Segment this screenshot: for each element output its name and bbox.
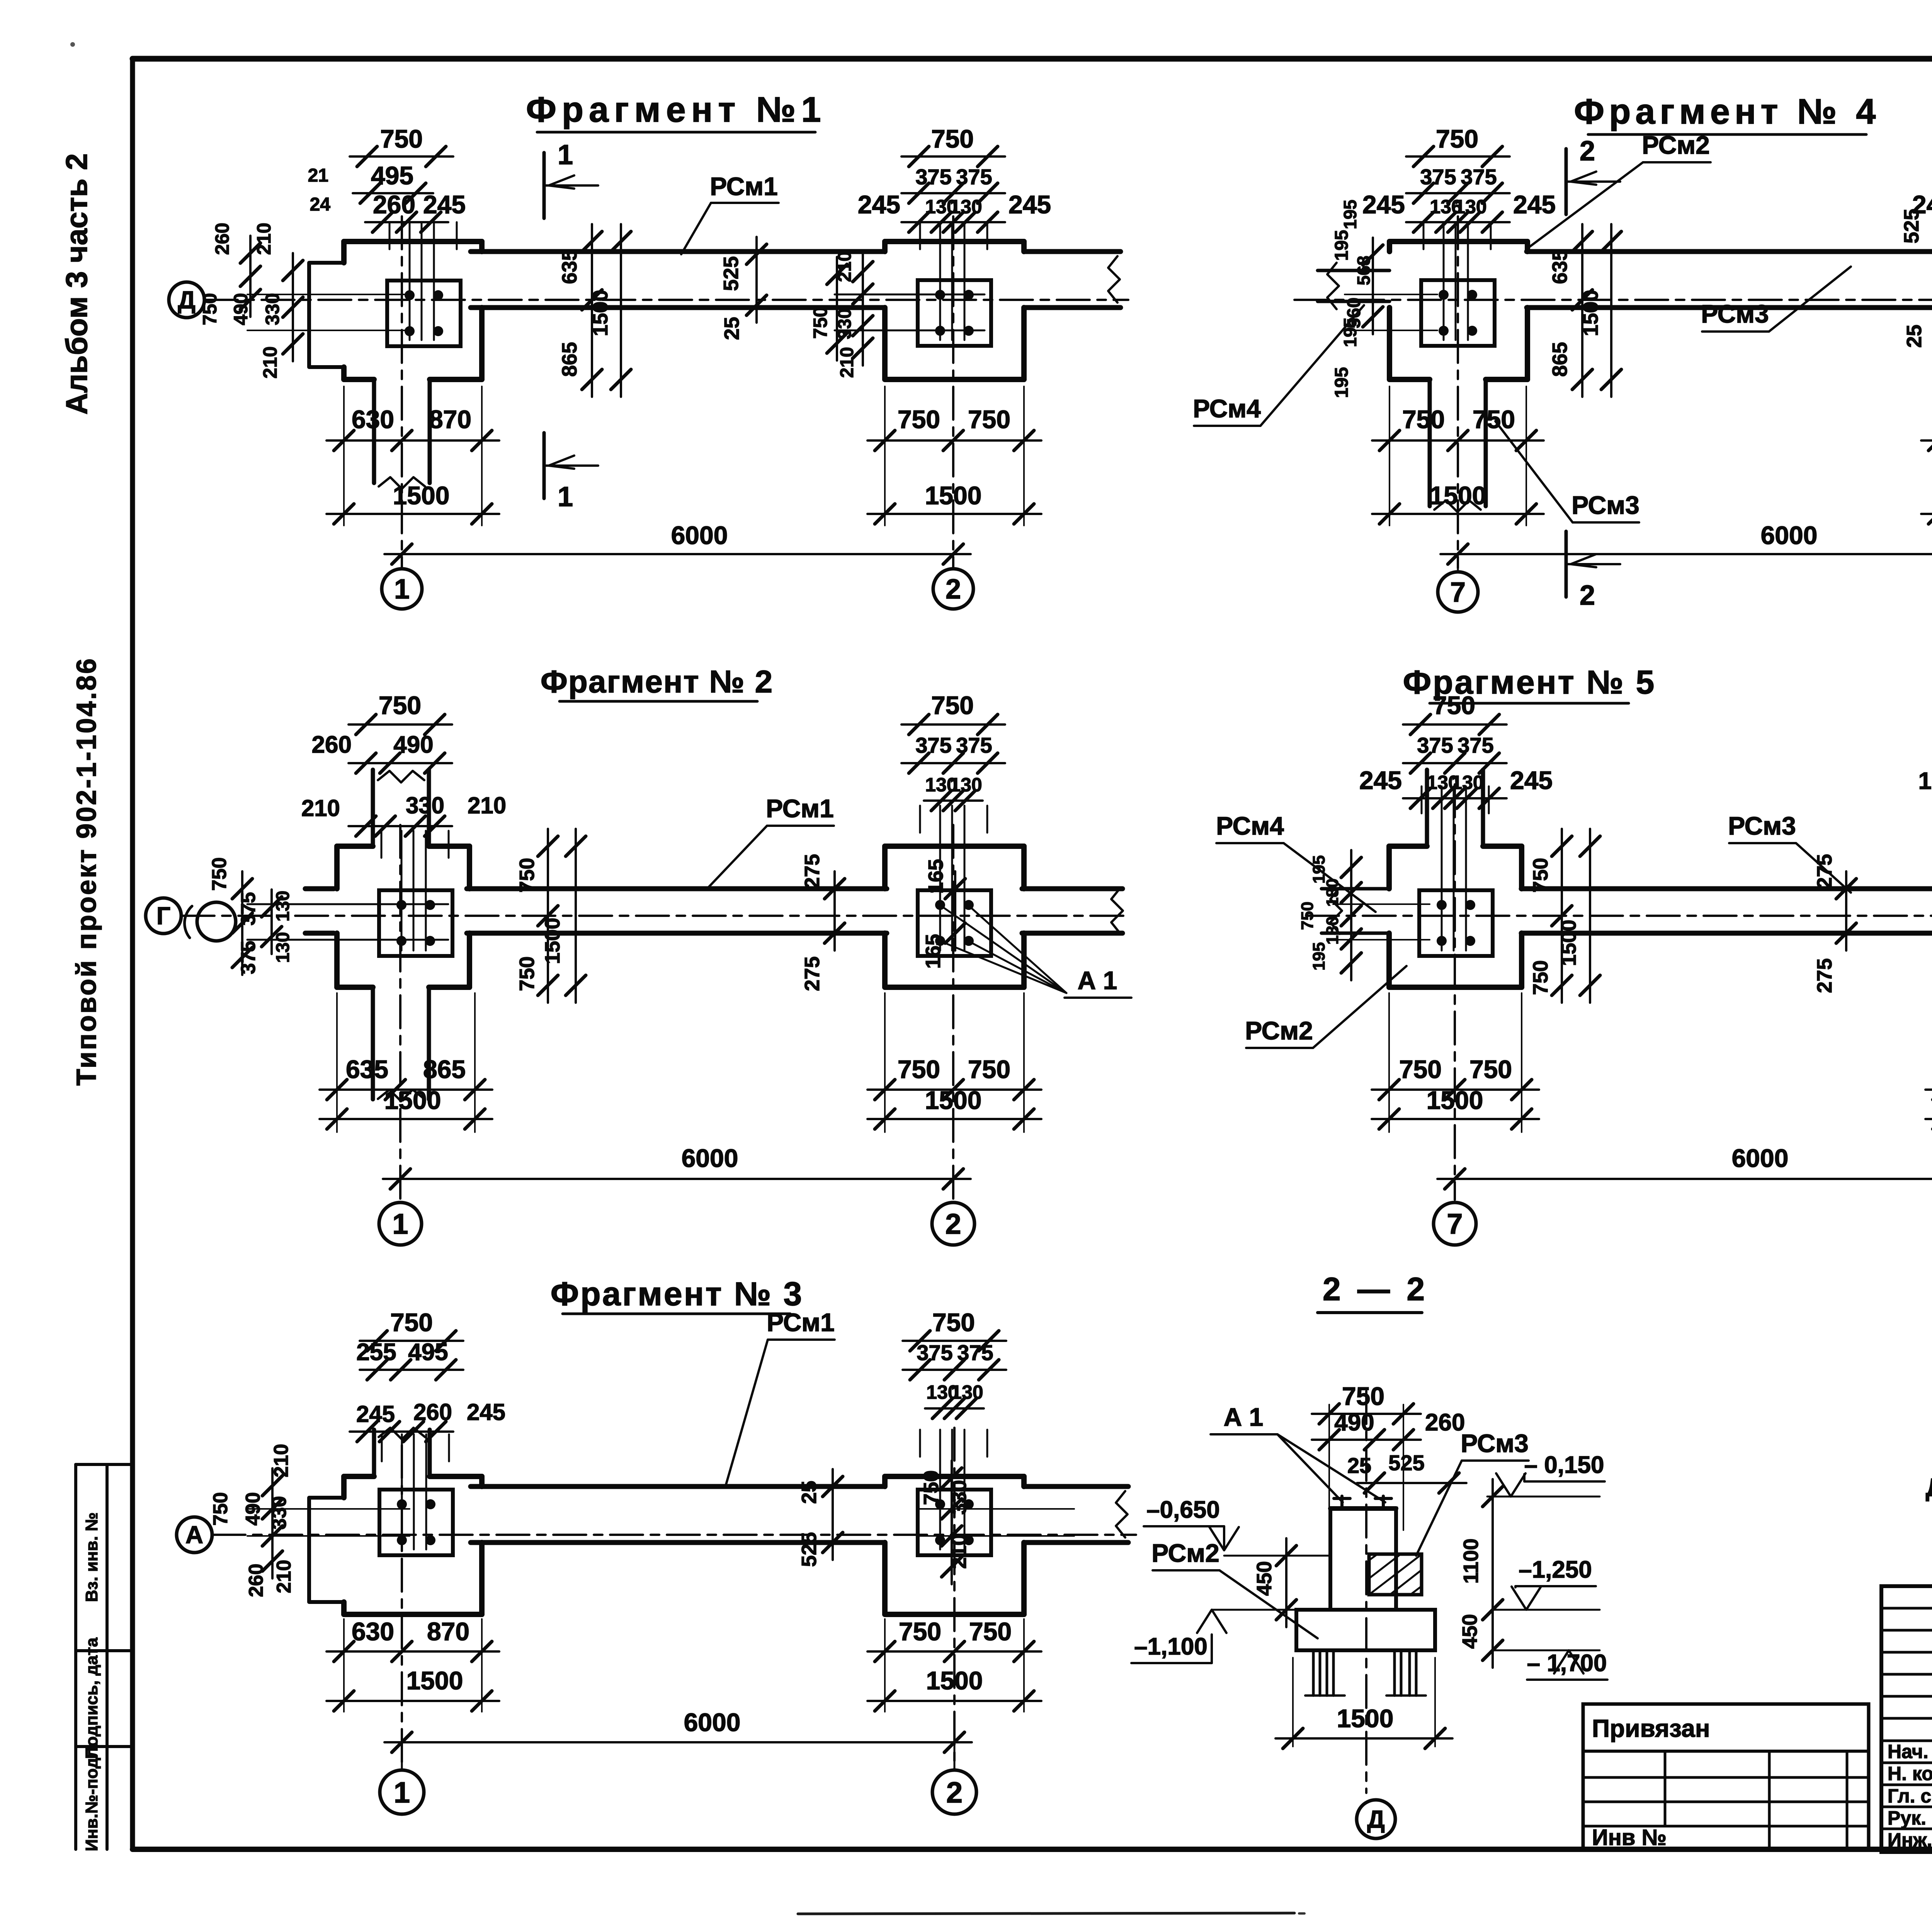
fragment 2 title [541, 664, 773, 701]
svg-text:635: 635 [1548, 249, 1571, 284]
frag2 right footing top chains 750/375-375/130-130 [901, 691, 1005, 811]
svg-text:1500: 1500 [1337, 1704, 1394, 1733]
grid circle 7 (frag4) [1438, 554, 1478, 612]
elevation -1,250 (2-2) [1493, 1556, 1600, 1610]
frag5 right footing bottom chains 865-635/1500 [1925, 993, 1932, 1132]
frag2 left footing (cross, grid 1) [247, 770, 469, 1200]
svg-text:210: 210 [837, 347, 857, 378]
svg-text:2: 2 [946, 1776, 963, 1809]
svg-text:РСм3: РСм3 [1701, 299, 1769, 328]
section mark 2 top [1566, 136, 1620, 214]
fragment 5 group [1216, 664, 1932, 1245]
wall РСм3 plan (frag5) [1521, 888, 1932, 934]
svg-text:Г: Г [156, 902, 170, 930]
svg-text:750: 750 [899, 1617, 941, 1646]
svg-text:490: 490 [230, 293, 252, 325]
svg-text:6000: 6000 [1761, 521, 1818, 549]
svg-text:1500: 1500 [1579, 290, 1602, 336]
svg-text:750: 750 [515, 956, 539, 991]
axis dash-dot (frag5) [1306, 915, 1932, 917]
frag3 right footing bottom chains 750-750/1500 [867, 1617, 1041, 1712]
svg-text:130: 130 [273, 932, 293, 963]
svg-text:865: 865 [423, 1055, 466, 1083]
label РСм2 (frag4) [1526, 131, 1711, 249]
frag1 left footing bottom chains 630-870-1500 [327, 386, 499, 526]
svg-text:130: 130 [1454, 196, 1486, 218]
svg-text:РСм3: РСм3 [1571, 491, 1639, 519]
svg-text:21: 21 [308, 165, 328, 186]
svg-text:7: 7 [1447, 1208, 1463, 1240]
svg-text:1500: 1500 [393, 481, 450, 510]
svg-text:Д: Д [1367, 1805, 1385, 1833]
svg-text:525: 525 [719, 256, 743, 291]
svg-text:А: А [185, 1521, 203, 1549]
svg-text:865: 865 [558, 342, 581, 377]
svg-text:6000: 6000 [684, 1708, 741, 1736]
svg-text:Данный лист см. совместно: Данный лист см. совместно с листом № 4 [1926, 1473, 1932, 1502]
svg-text:750: 750 [810, 306, 831, 338]
axis Б partial circle [185, 902, 236, 941]
wall РСм1 plan (frag1) [471, 252, 1121, 308]
axis Д dash-dot (frag4) [1294, 299, 1932, 301]
svg-text:РСм1: РСм1 [766, 794, 834, 823]
section 2-2 centerline [1365, 1391, 1367, 1793]
svg-text:1: 1 [558, 481, 573, 512]
svg-text:6000: 6000 [1732, 1144, 1789, 1172]
wall РСм4 stub entering left (frag4) [1318, 230, 1389, 398]
svg-text:1500: 1500 [926, 1666, 983, 1695]
svg-text:1500: 1500 [384, 1086, 441, 1114]
frag2 6000 dimension [383, 1144, 971, 1189]
svg-text:750: 750 [1402, 405, 1445, 434]
fragment 1 title [526, 90, 826, 132]
margin text: Альбом 3 часть 2 [60, 153, 94, 415]
svg-text:375: 375 [915, 733, 951, 757]
svg-text:РСм2: РСм2 [1151, 1539, 1219, 1567]
svg-text:1500: 1500 [925, 1086, 982, 1114]
svg-text:750: 750 [379, 691, 421, 719]
frag5 left footing top chains 750/375-375/245-130-130-245 [1359, 691, 1553, 808]
section 2-2 piles [1305, 1650, 1426, 1696]
frag4 left footing (grid 7) [1345, 216, 1527, 568]
section mark 1 top [544, 139, 598, 218]
label РСм3 (2-2) [1416, 1429, 1529, 1556]
svg-text:210: 210 [301, 795, 340, 821]
svg-text:А 1: А 1 [1078, 966, 1117, 995]
section 2-2 dims 25/525 [1347, 1451, 1466, 1493]
svg-text:260: 260 [1425, 1409, 1465, 1436]
svg-text:РСм3: РСм3 [1728, 811, 1796, 840]
svg-text:245: 245 [858, 190, 900, 219]
svg-text:6000: 6000 [671, 521, 728, 549]
axis Г circle [146, 898, 181, 934]
svg-text:750: 750 [931, 124, 974, 153]
svg-text:750: 750 [1433, 691, 1475, 719]
frag1 chains 750/210-330-210 left of right footing [810, 251, 873, 378]
fragment 5 title [1403, 664, 1656, 703]
grid circle 7 (frag5) [1434, 1202, 1476, 1245]
svg-text:РСм4: РСм4 [1216, 811, 1284, 840]
svg-text:750: 750 [931, 691, 974, 719]
grid circle 1 (frag2) [379, 1202, 422, 1245]
svg-text:275: 275 [801, 854, 824, 889]
frag5 6000 dimension [1437, 1144, 1932, 1189]
svg-text:Фрагмент № 4: Фрагмент № 4 [1574, 92, 1881, 131]
svg-text:Подпись, дата: Подпись, дата [82, 1638, 101, 1759]
svg-text:750: 750 [515, 858, 539, 893]
svg-text:750: 750 [209, 1492, 232, 1526]
label РСм1 (frag1) [681, 172, 779, 254]
frag3 right footing (grid 2) [885, 1428, 1074, 1770]
svg-text:750: 750 [1399, 1055, 1442, 1083]
svg-text:Гл. спец.: Гл. спец. [1888, 1785, 1932, 1807]
svg-text:375: 375 [917, 1340, 952, 1365]
frag1 left footing (corner, grid 1) [309, 216, 482, 568]
svg-text:450: 450 [1253, 1561, 1276, 1596]
title block: pривязан table [1583, 1704, 1869, 1850]
svg-text:Рук. гр.: Рук. гр. [1888, 1807, 1932, 1829]
frag1 right footing (grid 2) [835, 216, 1024, 568]
fragment 2 group [146, 664, 1131, 1245]
svg-text:195: 195 [1332, 230, 1352, 261]
svg-text:245: 245 [1513, 190, 1556, 219]
svg-text:245: 245 [1359, 766, 1402, 794]
svg-text:25: 25 [720, 317, 743, 340]
svg-text:375: 375 [237, 892, 260, 926]
section 2-2 title [1318, 1271, 1429, 1313]
svg-text:275: 275 [801, 956, 824, 991]
svg-text:1: 1 [558, 139, 573, 170]
svg-text:РСм1: РСм1 [710, 172, 778, 201]
svg-text:– 0,150: – 0,150 [1524, 1452, 1604, 1478]
svg-text:–0,650: –0,650 [1146, 1497, 1220, 1523]
svg-text:750: 750 [898, 1055, 940, 1083]
frag1 right footing bottom chains 750-750/1500 [867, 386, 1041, 526]
svg-text:245: 245 [1510, 766, 1553, 794]
svg-text:375: 375 [1417, 733, 1453, 757]
svg-text:568: 568 [1354, 256, 1374, 286]
svg-text:1500: 1500 [541, 918, 564, 964]
frag3 6000 dimension [384, 1708, 972, 1752]
svg-text:1100: 1100 [1459, 1538, 1483, 1583]
label А1 (frag2) [940, 905, 1131, 998]
grid circle 2 (frag2) [932, 1202, 975, 1245]
svg-text:1: 1 [394, 1776, 410, 1809]
svg-text:Типовой проект 902-1-104.86: Типовой проект 902-1-104.86 [71, 657, 102, 1086]
svg-text:870: 870 [429, 405, 471, 434]
svg-text:1: 1 [392, 1208, 408, 1240]
svg-text:750: 750 [380, 124, 423, 153]
frag2 mid chains 275/275 and 165/165 [801, 854, 965, 991]
section 2-2 bottom dim 1500 [1276, 1658, 1452, 1748]
frag3 left footing top chains 750/255-495/245-260-245 [350, 1308, 505, 1442]
svg-text:630: 630 [352, 1617, 394, 1646]
svg-text:Д: Д [178, 286, 196, 314]
svg-text:Нач. отд.: Нач. отд. [1888, 1741, 1932, 1762]
frag1 mid vertical chains 635/1500/865 & 525/25 [558, 224, 767, 397]
svg-text:1500: 1500 [1430, 481, 1486, 510]
frag3 left footing (corner, grid 1) [247, 1428, 482, 1770]
section 2-2 vertical dims 1100/450 [1458, 1479, 1503, 1668]
svg-text:750: 750 [1436, 124, 1478, 153]
svg-text:210: 210 [273, 1560, 295, 1594]
frag2 right footing bottom chains 750-750/1500 [867, 993, 1041, 1132]
svg-text:330: 330 [262, 293, 283, 325]
svg-text:РСм1: РСм1 [767, 1308, 835, 1337]
svg-text:2: 2 [1580, 136, 1595, 167]
svg-text:7: 7 [1450, 577, 1466, 608]
svg-text:130: 130 [950, 196, 982, 218]
section 2-2 dims 450 left [1253, 1538, 1296, 1627]
svg-text:210: 210 [468, 793, 506, 818]
svg-text:24: 24 [310, 194, 331, 215]
svg-text:260: 260 [312, 731, 352, 758]
svg-text:630: 630 [352, 405, 394, 434]
frag2 left side rotated chains [208, 857, 293, 975]
svg-text:195: 195 [1310, 942, 1328, 970]
svg-text:Инв.№-подл.: Инв.№-подл. [82, 1742, 101, 1851]
svg-text:525: 525 [798, 1532, 821, 1567]
svg-text:245: 245 [1912, 190, 1932, 219]
note: Данный лист см. совместно с листом №4 [1926, 1473, 1932, 1502]
label РСм4 (frag4) [1193, 305, 1364, 426]
frag2 right footing (grid 2) [885, 806, 1024, 1200]
svg-text:195: 195 [1332, 367, 1352, 398]
svg-text:1500: 1500 [589, 290, 612, 336]
svg-text:450: 450 [1458, 1614, 1481, 1649]
frag1 left footing top dimension chains [308, 124, 466, 232]
svg-text:1500: 1500 [1557, 920, 1580, 966]
svg-text:870: 870 [427, 1617, 469, 1646]
fragment 1 group [169, 90, 1128, 609]
svg-text:1500: 1500 [406, 1666, 463, 1695]
axis Г dash-dot (frag2) [182, 915, 1130, 917]
frag4 6000 dimension [1440, 521, 1932, 564]
svg-text:130: 130 [951, 1381, 983, 1403]
svg-text:495: 495 [408, 1339, 448, 1366]
svg-text:130: 130 [950, 774, 982, 796]
section 2-2 group [1131, 1271, 1607, 1838]
svg-text:750: 750 [932, 1308, 975, 1337]
label РСм2 lower-left (frag5) [1245, 966, 1406, 1048]
frag1 6000 dimension [384, 521, 971, 564]
frag4 right footing bottom chains 870-630/1500 [1921, 386, 1932, 526]
frag1 right footing top chains 750/375-375/245-130-130-245 [858, 124, 1051, 232]
frag3 left side rotated chains [209, 1444, 295, 1597]
svg-text:750: 750 [968, 1055, 1010, 1083]
label РСм1 (frag2) [707, 794, 834, 889]
svg-text:275: 275 [1813, 958, 1836, 993]
svg-text:635: 635 [558, 249, 581, 284]
frag4 left footing top chains [1362, 124, 1556, 232]
svg-text:2: 2 [946, 574, 961, 605]
section 2-2 foundation block [1296, 1610, 1435, 1650]
section 2-2 hatched РСм3 block [1369, 1554, 1422, 1595]
svg-text:Н. контр.: Н. контр. [1888, 1763, 1932, 1784]
svg-text:А 1: А 1 [1224, 1403, 1264, 1431]
svg-text:750: 750 [208, 857, 231, 891]
svg-text:210: 210 [835, 251, 855, 282]
wall РСм1 plan (frag2) [305, 888, 1123, 934]
svg-text:750: 750 [1529, 960, 1552, 995]
label РСм3 lower (frag4) [1495, 421, 1639, 522]
svg-text:750: 750 [968, 405, 1010, 434]
svg-text:865: 865 [1548, 342, 1571, 377]
svg-text:750: 750 [1342, 1382, 1384, 1410]
grid circle Д (2-2 bottom) [1357, 1800, 1395, 1838]
svg-text:Фрагмент № 3: Фрагмент № 3 [551, 1276, 804, 1313]
svg-text:РСм2: РСм2 [1642, 131, 1710, 159]
svg-text:Фрагмент №1: Фрагмент №1 [526, 90, 826, 129]
svg-text:525: 525 [1388, 1451, 1424, 1475]
svg-text:2: 2 [945, 1208, 961, 1240]
svg-text:750: 750 [199, 293, 221, 325]
wall РСм1 plan (frag3) [471, 1486, 1128, 1543]
svg-text:750: 750 [1529, 858, 1552, 893]
grid circle 2 (frag1) [933, 554, 973, 609]
frag5 left footing bottom chains 750-750/1500 [1372, 993, 1539, 1132]
svg-text:25: 25 [1903, 325, 1926, 348]
title block: staff table [1881, 1586, 1932, 1852]
svg-text:255: 255 [356, 1339, 396, 1366]
svg-text:1500: 1500 [1427, 1086, 1483, 1114]
svg-text:260: 260 [211, 223, 233, 255]
label А1 (2-2) [1211, 1403, 1385, 1502]
frag3 left footing bottom chains 630-870/1500 [327, 1617, 499, 1712]
svg-text:25: 25 [1347, 1453, 1371, 1478]
svg-text:2 — 2: 2 — 2 [1323, 1271, 1429, 1307]
svg-text:Привязан: Привязан [1592, 1714, 1710, 1742]
left stamp strip table [76, 1464, 133, 1851]
svg-text:25: 25 [798, 1481, 821, 1504]
svg-text:375: 375 [915, 165, 951, 189]
svg-text:245: 245 [1362, 190, 1405, 219]
svg-text:490: 490 [1334, 1409, 1374, 1436]
svg-text:490: 490 [242, 1492, 264, 1526]
svg-text:6000: 6000 [682, 1144, 738, 1172]
svg-text:245: 245 [1009, 190, 1051, 219]
frag5 left footing (grid 7) [1333, 770, 1522, 1200]
svg-text:195: 195 [1340, 200, 1360, 230]
svg-text:Вз. инв. №: Вз. инв. № [82, 1512, 101, 1602]
svg-text:РСм3: РСм3 [1461, 1429, 1529, 1458]
svg-text:195: 195 [1918, 768, 1932, 794]
frag2 mid vertical chains 750/1500/750 [515, 829, 586, 1003]
label РСм2 (2-2) [1151, 1539, 1318, 1638]
frag1 left footing left side chains [199, 223, 410, 378]
svg-text:Инж.: Инж. [1888, 1829, 1932, 1851]
fragment 3 title [551, 1276, 804, 1314]
label РСм1 (frag3) [726, 1308, 835, 1486]
svg-text:РСм4: РСм4 [1193, 394, 1261, 423]
section mark 2 bottom [1566, 531, 1620, 611]
svg-text:195: 195 [1340, 318, 1360, 347]
svg-text:210: 210 [253, 223, 275, 255]
elevation -0,650 (2-2) [1144, 1497, 1330, 1556]
frag4 mid vertical chains 635/1500/865 & 525/25 [1548, 209, 1932, 397]
section mark 1 bottom [544, 433, 598, 512]
elevation -0,150 (2-2) [1487, 1452, 1605, 1497]
svg-text:2: 2 [1580, 580, 1595, 611]
frag2 left footing top chains 750/260-490/210-330-210 [301, 691, 506, 836]
svg-text:Фрагмент № 2: Фрагмент № 2 [541, 664, 773, 699]
frag3 mid vertical chains 25/525 and 750/330/210 [798, 1461, 971, 1584]
label РСм4 (frag5) [1216, 811, 1376, 912]
svg-text:–1,250: –1,250 [1519, 1556, 1592, 1583]
axis А dash-dot (frag3) [213, 1534, 1136, 1536]
fragment 4 title [1574, 92, 1881, 134]
svg-text:245: 245 [423, 190, 466, 219]
svg-text:180: 180 [1323, 878, 1342, 906]
margin text: Типовой проект 902-1-104.86 [71, 657, 102, 1086]
grid circle 1 (frag1) [382, 554, 422, 609]
svg-text:375: 375 [1420, 165, 1456, 189]
svg-text:–1,100: –1,100 [1134, 1633, 1207, 1660]
fragment 4 group [1193, 92, 1932, 612]
svg-text:130: 130 [273, 891, 293, 922]
axis А circle [177, 1517, 212, 1553]
svg-text:750: 750 [1469, 1055, 1512, 1083]
elevation -1,100 (2-2) [1131, 1610, 1296, 1663]
axis Д circle [169, 282, 204, 318]
frag4 right footing top chains 750/495-255/245-130-130-245 [1912, 124, 1932, 232]
svg-text:Альбом 3 часть 2: Альбом 3 часть 2 [60, 153, 94, 415]
grid circle 2 (frag3) [932, 1742, 976, 1814]
svg-text:245: 245 [467, 1399, 505, 1425]
svg-text:210: 210 [259, 346, 281, 378]
svg-text:1500: 1500 [925, 481, 982, 510]
svg-text:635: 635 [346, 1055, 388, 1083]
label РСм3 (frag5) [1728, 811, 1851, 893]
svg-text:260: 260 [373, 190, 415, 219]
svg-text:РСм2: РСм2 [1245, 1016, 1313, 1045]
section 2-2 top dims 750 / 490-260 [1312, 1382, 1465, 1530]
svg-text:1: 1 [394, 574, 410, 605]
frag2 left footing bottom chains 635-865/1500 [320, 993, 492, 1132]
wall РСм3 plan (frag4 mid) [1527, 252, 1932, 308]
frag5 right footing top chains 750/490-260/195-180-180-195 [1918, 691, 1932, 808]
grid circle 1 (frag3) [380, 1742, 424, 1814]
svg-text:750: 750 [969, 1617, 1012, 1646]
svg-text:750: 750 [1473, 405, 1515, 434]
svg-text:750: 750 [898, 405, 940, 434]
bottom scan artifact line [798, 1913, 1304, 1914]
frag4 left footing bottom chains 750-750/1500 [1372, 386, 1544, 526]
svg-text:275: 275 [1813, 854, 1836, 889]
svg-text:Инв №: Инв № [1592, 1825, 1667, 1850]
fragment 3 group [177, 1276, 1136, 1814]
elevation -1,700 (2-2) [1493, 1650, 1607, 1680]
frag5 mid vertical chains 750/1500/750 and 275/275 [1529, 829, 1856, 1003]
svg-text:130: 130 [1451, 772, 1483, 793]
frag4 left side small chains 195/568/195 [1340, 200, 1374, 347]
axis Д dash-dot line [205, 299, 1128, 301]
label РСм3 mid (frag4) [1701, 267, 1851, 332]
svg-text:750: 750 [1298, 901, 1317, 930]
wall stub left + РСм4 (frag5) [1298, 850, 1387, 980]
frag3 right footing top chains 750/375-375/130-130 [903, 1308, 1006, 1418]
svg-text:750: 750 [390, 1308, 433, 1337]
section 2-2 pedestal [1330, 1496, 1396, 1610]
